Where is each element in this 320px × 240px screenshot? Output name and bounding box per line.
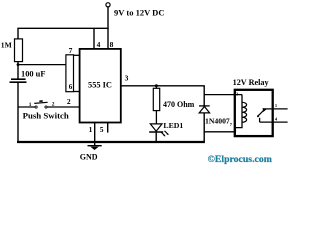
wire pin 6 xyxy=(74,91,81,93)
svg-text:©Elprocus.com: ©Elprocus.com xyxy=(208,154,272,165)
svg-text:1: 1 xyxy=(29,102,32,108)
wire R1 bottom to junction xyxy=(17,62,19,79)
svg-text:LED1: LED1 xyxy=(163,121,183,130)
resistor R1 1M xyxy=(15,39,23,62)
svg-text:470 Ohm: 470 Ohm xyxy=(163,100,195,109)
svg-text:Push Switch: Push Switch xyxy=(23,111,69,121)
svg-text:8: 8 xyxy=(110,40,114,49)
svg-text:9V to 12V DC: 9V to 12V DC xyxy=(114,7,164,17)
svg-text:555 IC: 555 IC xyxy=(88,81,112,90)
wire pin 5 stub xyxy=(107,123,109,133)
svg-text:3: 3 xyxy=(125,74,129,83)
svg-text:5: 5 xyxy=(100,125,104,134)
ground symbol xyxy=(88,146,102,150)
wire C1 to ground rail xyxy=(17,82,19,142)
capacitor C1 100 uF xyxy=(10,79,27,82)
wire top rail xyxy=(18,28,109,39)
svg-text:4: 4 xyxy=(97,40,101,49)
LED D2 xyxy=(149,124,169,142)
op-amp U1 555 IC body xyxy=(80,49,121,123)
wire supply vertical xyxy=(107,7,109,29)
wire pin 7 xyxy=(74,54,81,56)
svg-text:1N4007: 1N4007 xyxy=(205,116,230,125)
resistor R3 470 Ohm xyxy=(153,86,159,124)
resistor R2 between pins 7 and 6 xyxy=(66,55,74,92)
node junction dot xyxy=(17,63,20,66)
wire relay contact bottom xyxy=(260,121,288,123)
wire junction to R2 xyxy=(18,64,66,66)
svg-text:1M: 1M xyxy=(1,41,12,50)
wire pin 1 xyxy=(94,123,96,146)
svg-text:100 uF: 100 uF xyxy=(21,70,45,79)
node junction at R3 top xyxy=(155,84,158,87)
relay coil L1 xyxy=(242,95,247,128)
svg-text:GND: GND xyxy=(80,153,98,162)
svg-text:6: 6 xyxy=(69,83,73,91)
svg-text:2: 2 xyxy=(67,97,71,106)
svg-text:1: 1 xyxy=(89,125,93,134)
wire coil top from diode column xyxy=(204,94,242,96)
relay switch armature xyxy=(257,108,266,122)
svg-text:2: 2 xyxy=(52,101,55,107)
push switch S1 xyxy=(18,100,80,108)
relay box xyxy=(235,90,273,136)
wire coil bottom return xyxy=(204,128,242,132)
wire pin 4 xyxy=(93,28,95,49)
svg-text:12V Relay: 12V Relay xyxy=(233,78,270,87)
diode D1 1N4007 xyxy=(199,86,210,142)
ground rail wire xyxy=(17,141,205,143)
wire pin 3 xyxy=(121,85,205,87)
svg-text:7: 7 xyxy=(69,46,73,55)
wire pin 8 xyxy=(107,28,109,49)
supply terminal xyxy=(106,3,110,7)
wire relay contact top xyxy=(263,108,288,110)
